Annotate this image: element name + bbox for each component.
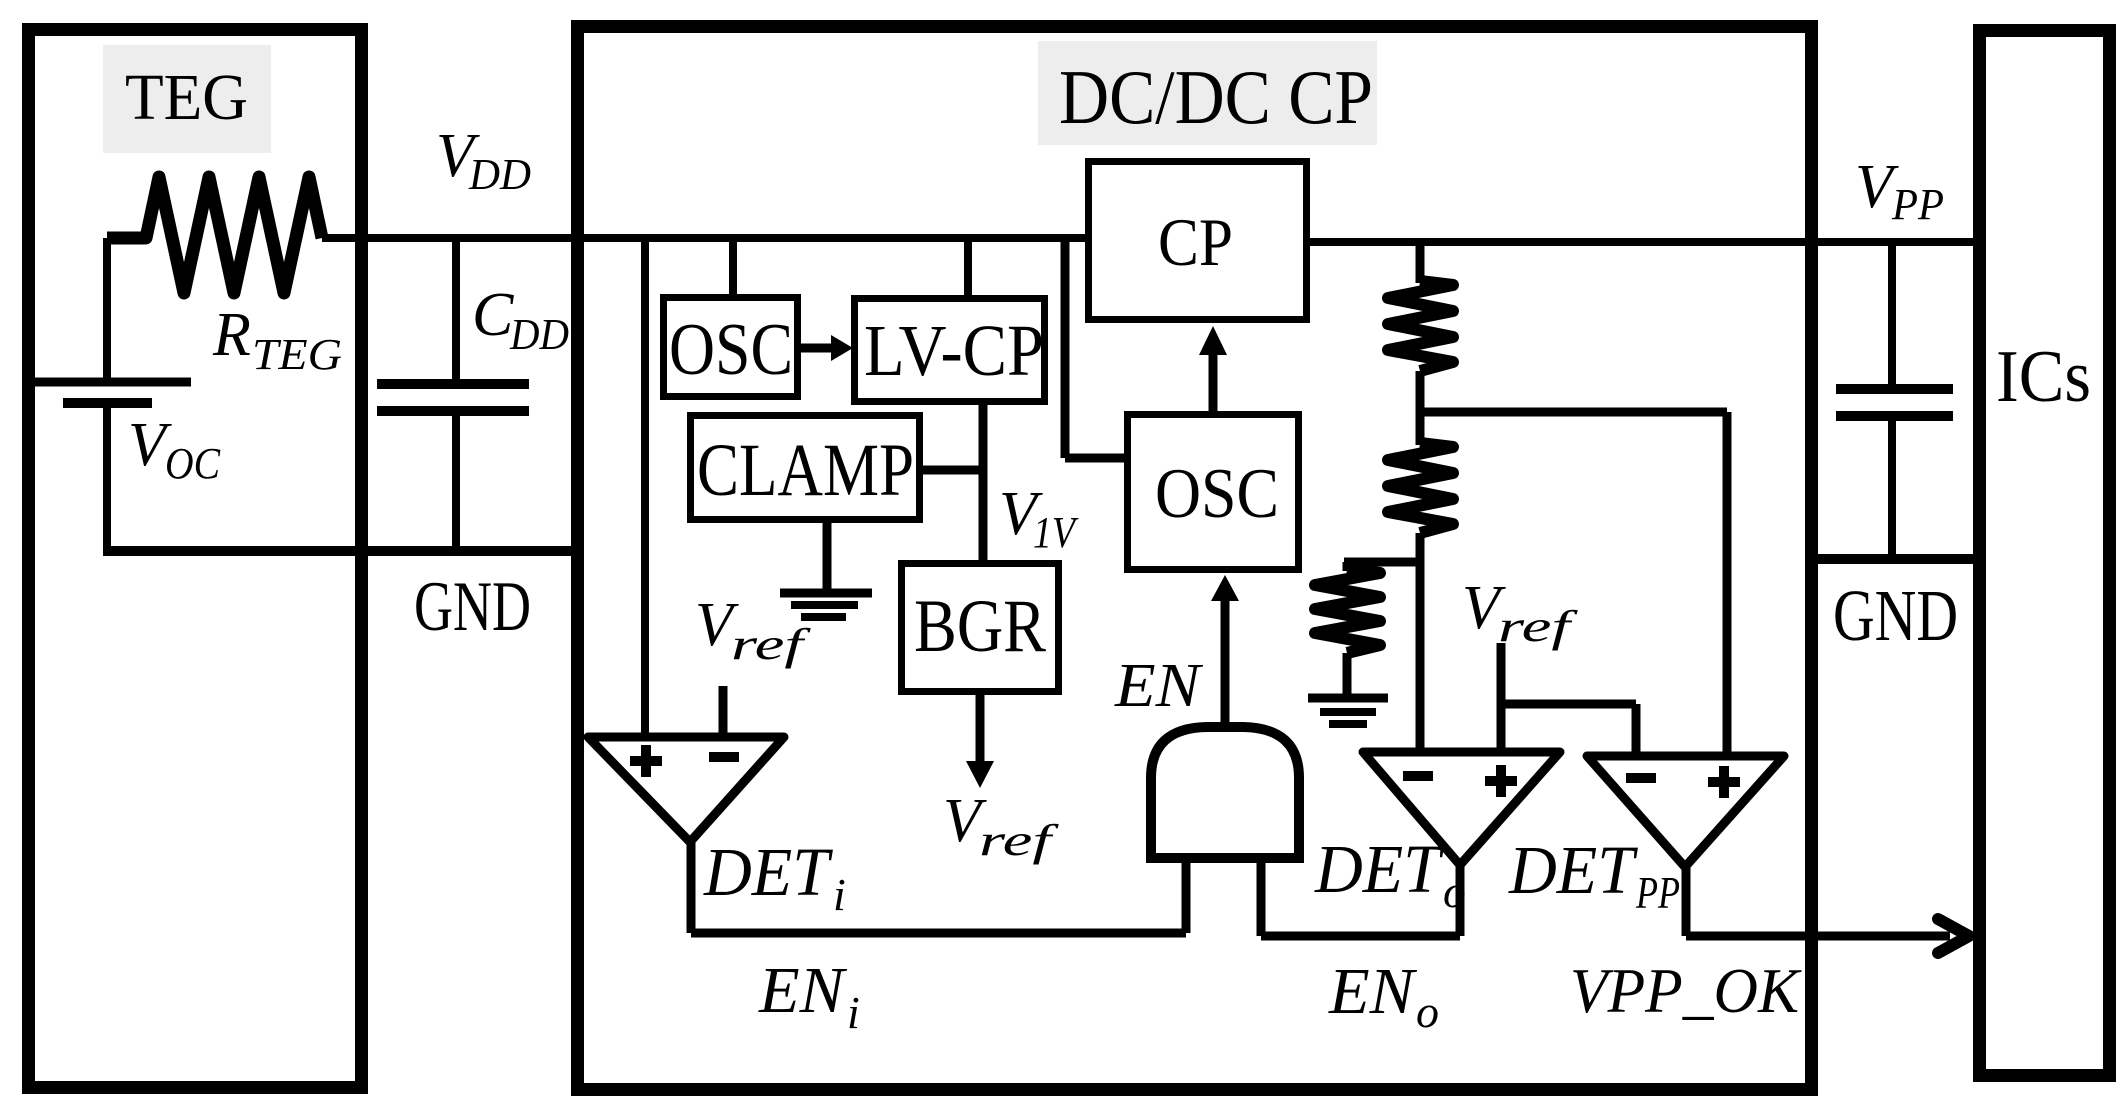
wire EN_o [1261, 932, 1460, 941]
wire C_DD bottom lead [452, 411, 460, 551]
svg-text:BGR: BGR [914, 585, 1046, 668]
op-amp DET_o [1363, 752, 1560, 865]
svg-text:CP: CP [1158, 204, 1233, 280]
wire VPP cap top lead [1888, 242, 1896, 384]
DC/DC CP outer box [578, 27, 1812, 1090]
wire BGR output arrow Vref [966, 695, 994, 788]
wire DET_i output [687, 842, 696, 933]
wire stub rail to OSC1 [729, 238, 737, 297]
svg-text:EN: EN [1114, 652, 1204, 720]
svg-text:C: C [472, 281, 514, 349]
svg-text:TEG: TEG [125, 61, 248, 134]
svg-text:ICs: ICs [1996, 336, 2091, 418]
svg-text:i: i [833, 869, 846, 920]
resistor R2 [1388, 443, 1453, 533]
wire feedback tap [1420, 412, 1727, 756]
V_PP label [1855, 153, 1944, 229]
BGR box [902, 564, 1059, 692]
op-amp DET_PP [1587, 756, 1784, 867]
ground CLAMP [780, 593, 872, 617]
svg-text:CLAMP: CLAMP [697, 429, 914, 512]
capacitor C_DD [377, 384, 529, 411]
resistor R3 [1315, 562, 1380, 695]
wire DET_PP output [1682, 867, 1691, 936]
capacitor VPP [1836, 389, 1953, 416]
CP box [1089, 162, 1307, 320]
svg-text:OSC: OSC [1155, 455, 1279, 533]
wire Vref stub DETi minus [719, 686, 728, 737]
svg-text:DET: DET [1508, 832, 1638, 908]
DET_i label [703, 834, 846, 920]
wire CLAMP ground lead [823, 519, 832, 592]
svg-text:DC/DC CP: DC/DC CP [1059, 54, 1373, 140]
CLAMP box [691, 416, 920, 520]
battery V_OC short plate [63, 398, 152, 408]
svg-text:VPP_OK: VPP_OK [1570, 955, 1802, 1026]
svg-text:ref: ref [1498, 602, 1579, 651]
wire VDD rail left [322, 234, 1086, 242]
wire EN_i [691, 929, 1186, 938]
wire Vref to DET_o plus [1497, 643, 1506, 752]
wire rail to OSC2 left [1065, 238, 1124, 458]
wire branch to R3 [1344, 558, 1420, 567]
svg-text:GND: GND [414, 568, 531, 646]
V_ref label left [695, 591, 812, 669]
V_1V label [999, 480, 1079, 557]
wire GND bus left [103, 546, 571, 556]
wire VPP cap bottom lead [1888, 416, 1896, 559]
battery V_OC long plate [35, 378, 191, 387]
svg-text:LV-CP: LV-CP [864, 310, 1044, 391]
EN_i label [758, 954, 860, 1038]
svg-text:PP: PP [1635, 867, 1680, 918]
resistor R1 [1388, 281, 1453, 371]
svg-text:R: R [212, 301, 251, 369]
wire battery top lead [103, 238, 111, 378]
wire Vref horizontal to DET_PP [1501, 700, 1636, 709]
wire resistor chain top lead [1416, 242, 1425, 283]
wire R2 to DET_o minus [1416, 533, 1425, 752]
wire rail to DETi plus input [641, 238, 649, 737]
wire VPP rail right [1309, 238, 1973, 246]
wire CLAMP to V1V node [923, 466, 983, 475]
wire AND left leg [1182, 858, 1191, 933]
AND gate [1151, 727, 1299, 858]
svg-text:OSC: OSC [669, 309, 793, 391]
wire AND right leg [1257, 858, 1266, 936]
OSC block 1 box [664, 298, 798, 397]
DC/DC CP label highlight [1038, 41, 1377, 145]
V_OC label [128, 411, 221, 488]
wire stub rail to LV-CP [964, 238, 972, 299]
wire VPP_OK with arrow [1686, 919, 1969, 953]
svg-text:DD: DD [468, 150, 531, 199]
wire battery bottom lead [103, 403, 111, 551]
svg-text:DET: DET [1314, 831, 1444, 907]
svg-text:EN: EN [1328, 955, 1418, 1028]
V_DD label [436, 122, 531, 199]
wire arrow OSC2 to CP [1199, 326, 1227, 411]
svg-text:o: o [1416, 986, 1439, 1037]
OSC block 2 box [1128, 415, 1299, 570]
svg-text:1V: 1V [1033, 508, 1079, 557]
TEG label highlight [103, 45, 271, 153]
svg-text:DET: DET [703, 834, 833, 910]
wire DET_o output [1456, 865, 1465, 936]
wire R1 to R2 [1416, 371, 1425, 445]
resistor R_TEG [107, 177, 322, 293]
op-amp DET_i [588, 737, 784, 842]
C_DD label [472, 281, 569, 359]
V_ref label right [1462, 574, 1579, 651]
V_ref label below BGR [943, 787, 1060, 865]
svg-text:EN: EN [758, 954, 848, 1027]
R_TEG label [212, 301, 342, 379]
wire DET_PP minus input [1632, 704, 1641, 756]
svg-text:GND: GND [1833, 575, 1958, 656]
svg-text:i: i [847, 987, 860, 1038]
wire V1V LV-CP to BGR [979, 400, 988, 560]
svg-text:DD: DD [509, 310, 569, 359]
EN_o label [1328, 955, 1439, 1037]
svg-text:ref: ref [979, 816, 1060, 865]
svg-text:PP: PP [1891, 180, 1944, 229]
wire GND rail right [1818, 554, 1973, 564]
svg-text:OC: OC [165, 439, 221, 488]
LV-CP box [855, 299, 1045, 402]
ground R3 [1308, 698, 1388, 724]
svg-text:TEG: TEG [252, 330, 342, 379]
wire EN arrow AND to OSC2 [1211, 575, 1239, 728]
svg-text:ref: ref [731, 620, 812, 669]
wire C_DD top lead [452, 238, 460, 379]
DET_o label [1314, 831, 1466, 917]
wire arrow OSC1 to LV-CP [801, 335, 853, 361]
DET_PP label [1508, 832, 1680, 918]
ICs outer box [1980, 31, 2110, 1076]
TEG outer box [29, 30, 362, 1088]
